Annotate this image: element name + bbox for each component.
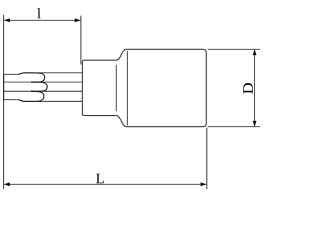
- torx lobe lower: [19, 91, 44, 101]
- torx lobe upper: [19, 73, 45, 82]
- extension line left (tip of bit, for l and L): [3, 15, 5, 189]
- shoulder edge line B (body): [126, 51, 128, 125]
- label L: [96, 174, 104, 183]
- dimension line D: [254, 50, 256, 127]
- torx bit flute line 2: [4, 81, 83, 83]
- arrowhead l left: [4, 18, 10, 22]
- shoulder edge line A (nose): [115, 65, 117, 111]
- extension line right of L dimension: [206, 128, 208, 190]
- torx lobe middle: [31, 82, 47, 91]
- torx bit top silhouette line with tip chamfer: [4, 73, 83, 75]
- arrowhead L left: [4, 182, 10, 186]
- dimension line l: [4, 19, 80, 21]
- extension line right of l dimension: [80, 16, 82, 65]
- label l: [37, 8, 40, 18]
- socket body outline: [82, 49, 206, 126]
- arrowhead D up: [253, 49, 257, 55]
- torx bit flute line 3: [4, 90, 83, 92]
- dimension line L: [4, 183, 206, 185]
- arrowhead l right: [75, 18, 81, 22]
- label D (rotated): [243, 83, 253, 94]
- torx bit bottom silhouette line with tip chamfer: [4, 100, 83, 102]
- bit tip end face: [3, 74, 5, 100]
- extension line D top: [208, 48, 260, 50]
- arrowhead D down: [253, 121, 257, 127]
- extension line D bottom: [208, 126, 260, 128]
- arrowhead L right: [201, 182, 207, 186]
